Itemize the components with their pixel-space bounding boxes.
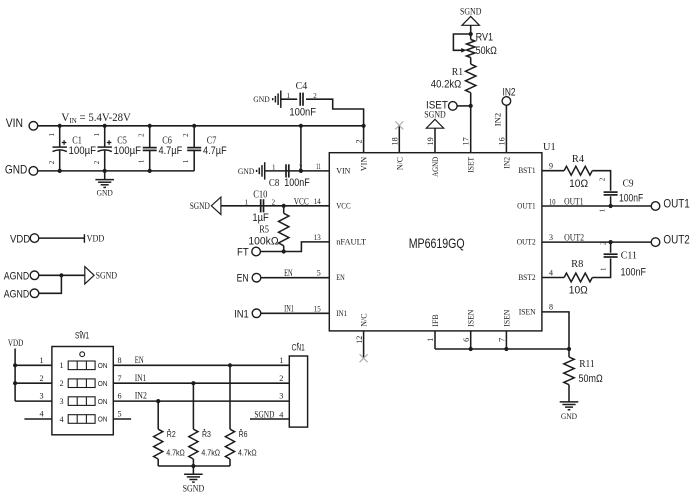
wire SW1 pin4 stub bbox=[24, 418, 52, 420]
terminal AGND (upper) bbox=[30, 271, 39, 280]
svg-text:IN2: IN2 bbox=[503, 86, 516, 98]
capacitor C10 bbox=[261, 199, 264, 212]
svg-text:BST1: BST1 bbox=[518, 165, 536, 175]
capacitor C9 bbox=[604, 192, 618, 195]
svg-text:4.7µF: 4.7µF bbox=[159, 145, 183, 157]
svg-text:GND: GND bbox=[561, 412, 577, 421]
ground GND below C5 bbox=[95, 180, 114, 188]
svg-text:1: 1 bbox=[182, 159, 190, 163]
wire GND stem bbox=[104, 171, 106, 180]
junction C5 bottom bbox=[103, 169, 107, 173]
svg-text:GND: GND bbox=[5, 163, 27, 177]
junction C8/pin11 bbox=[299, 169, 303, 173]
wire R5 bottom lead bbox=[283, 246, 285, 252]
svg-text:5: 5 bbox=[317, 269, 321, 278]
svg-text:10: 10 bbox=[549, 197, 556, 206]
ground GND (rotated) for C4 bbox=[273, 91, 281, 108]
wire pin 2 lead bbox=[363, 126, 365, 153]
capacitor C1 (polarized) bbox=[53, 140, 67, 151]
svg-text:8: 8 bbox=[118, 356, 122, 365]
junction R5/FT bbox=[282, 249, 286, 253]
svg-text:7: 7 bbox=[498, 338, 507, 342]
svg-text:nFAULT: nFAULT bbox=[336, 236, 367, 246]
svg-text:6: 6 bbox=[118, 392, 122, 401]
svg-text:EN: EN bbox=[284, 268, 293, 278]
wire pin 3 OUT2 bbox=[542, 241, 651, 243]
svg-text:C11: C11 bbox=[621, 250, 637, 261]
svg-text:13: 13 bbox=[314, 233, 321, 242]
wire R3 top lead bbox=[192, 383, 194, 429]
svg-text:OUT1: OUT1 bbox=[663, 197, 690, 211]
svg-text:N/C: N/C bbox=[394, 157, 404, 170]
wire FT to nFAULT (pin 13) bbox=[260, 242, 329, 252]
svg-text:N/C: N/C bbox=[359, 313, 369, 326]
junction C6 bottom bbox=[148, 169, 152, 173]
svg-text:2: 2 bbox=[182, 133, 190, 137]
svg-text:2: 2 bbox=[355, 139, 364, 143]
terminal OUT2 bbox=[651, 238, 660, 247]
svg-text:SGND: SGND bbox=[190, 202, 210, 212]
wire C10 row (pin 14 VCC) bbox=[221, 205, 329, 207]
svg-text:4.7kΩ: 4.7kΩ bbox=[166, 448, 185, 458]
wire EN row bbox=[113, 364, 289, 366]
svg-text:OUT2: OUT2 bbox=[517, 237, 536, 247]
wire R2 top lead bbox=[157, 401, 159, 429]
wire SW1 pin5 stub bbox=[113, 418, 131, 420]
svg-text:OUT2: OUT2 bbox=[564, 233, 584, 243]
resistor R4 bbox=[564, 166, 592, 175]
wire pin 4 BST2 to R8 bbox=[542, 277, 564, 279]
wire VDD vertical bbox=[14, 349, 16, 402]
svg-text:1: 1 bbox=[599, 208, 607, 212]
junction VCC/R5 bbox=[282, 204, 286, 208]
svg-text:R5: R5 bbox=[259, 225, 269, 236]
svg-text:100nF: 100nF bbox=[284, 177, 310, 189]
wire pin 9 BST1 to R4 bbox=[542, 170, 564, 172]
junction C11/OUT2 bbox=[609, 240, 613, 244]
svg-text:BST2: BST2 bbox=[518, 272, 536, 282]
svg-text:R8: R8 bbox=[571, 259, 583, 270]
svg-text:ISEN: ISEN bbox=[501, 309, 511, 327]
wire ISEN bus bbox=[435, 348, 569, 350]
svg-text:1: 1 bbox=[272, 164, 276, 172]
svg-text:SW1: SW1 bbox=[75, 331, 89, 341]
junction C9/OUT1 bbox=[609, 204, 613, 208]
svg-text:AGND: AGND bbox=[4, 271, 29, 283]
svg-text:OUT1: OUT1 bbox=[517, 201, 536, 211]
resistor R6 bbox=[225, 429, 234, 459]
wire C4 left lead bbox=[281, 98, 297, 100]
svg-text:VIN: VIN bbox=[359, 156, 369, 171]
svg-text:ISEN: ISEN bbox=[466, 309, 476, 327]
junction C1 top bbox=[58, 124, 62, 128]
wire CN1 pin4 stub bbox=[250, 418, 289, 420]
svg-text:9: 9 bbox=[549, 162, 553, 171]
wire IN2 row bbox=[113, 400, 289, 402]
svg-text:100µF: 100µF bbox=[114, 145, 142, 157]
svg-text:IFB: IFB bbox=[430, 314, 440, 327]
svg-text:R6: R6 bbox=[239, 430, 248, 439]
junction ISET/R1 bbox=[469, 104, 473, 108]
svg-text:GND: GND bbox=[97, 188, 113, 197]
junction pin7/bus bbox=[504, 347, 508, 351]
wire ISET to R1 bbox=[457, 105, 471, 107]
svg-text:3: 3 bbox=[59, 397, 63, 406]
svg-text:4: 4 bbox=[279, 410, 283, 419]
svg-text:C9: C9 bbox=[623, 178, 634, 189]
wire R5 top lead bbox=[283, 206, 285, 214]
capacitor C7 bbox=[187, 148, 201, 151]
svg-text:50kΩ: 50kΩ bbox=[476, 45, 497, 57]
svg-text:2: 2 bbox=[599, 177, 607, 181]
svg-text:100nF: 100nF bbox=[619, 192, 644, 204]
resistor R1 bbox=[466, 64, 476, 93]
wire pin 18 N/C lead bbox=[398, 125, 400, 152]
wire VIN rail bbox=[38, 125, 364, 127]
capacitor C11 bbox=[604, 254, 618, 257]
svg-text:VDD: VDD bbox=[10, 234, 30, 246]
terminal AGND (lower) bbox=[30, 289, 39, 298]
svg-text:100nF: 100nF bbox=[621, 267, 647, 279]
wire R6 bottom lead bbox=[229, 459, 231, 466]
svg-text:EN: EN bbox=[135, 356, 144, 366]
svg-text:GND: GND bbox=[253, 95, 269, 104]
svg-text:4.7µF: 4.7µF bbox=[203, 145, 227, 157]
wire AGND lower loop bbox=[39, 275, 62, 293]
junction VIN/C8 branch bbox=[299, 124, 303, 128]
junction VIN/pin2 bbox=[362, 124, 366, 128]
junction C5 top bbox=[103, 124, 107, 128]
svg-text:MP6619GQ: MP6619GQ bbox=[409, 235, 465, 251]
no-connect X pin 12 bbox=[360, 354, 368, 362]
wire R3 bottom lead bbox=[192, 459, 194, 466]
junction C1 bottom bbox=[58, 169, 62, 173]
svg-text:4: 4 bbox=[59, 415, 63, 424]
svg-text:2: 2 bbox=[138, 133, 146, 137]
wire SGND stem bbox=[470, 25, 472, 34]
svg-text:RV1: RV1 bbox=[476, 32, 493, 44]
capacitor C6 bbox=[143, 148, 157, 151]
svg-text:2: 2 bbox=[48, 160, 56, 164]
wire C4 to VIN node bbox=[306, 99, 364, 126]
resistor R5 bbox=[279, 213, 289, 245]
wire SW1 pin1 stub bbox=[15, 364, 52, 366]
svg-text:C10: C10 bbox=[253, 190, 267, 201]
power bar VDD bbox=[83, 234, 85, 243]
svg-text:3: 3 bbox=[549, 233, 553, 242]
junction IN2/R2 bbox=[156, 399, 160, 403]
svg-text:3: 3 bbox=[39, 392, 43, 401]
svg-text:R2: R2 bbox=[167, 430, 176, 439]
svg-text:4.7kΩ: 4.7kΩ bbox=[238, 448, 257, 458]
svg-text:IN1: IN1 bbox=[284, 304, 294, 314]
wire RV1 wiper loop bbox=[453, 34, 470, 50]
svg-text:2: 2 bbox=[272, 199, 276, 207]
RV1 wiper arrowhead bbox=[461, 48, 466, 53]
svg-text:1: 1 bbox=[138, 159, 146, 163]
svg-text:19: 19 bbox=[426, 137, 435, 145]
svg-text:VCC: VCC bbox=[294, 196, 309, 206]
svg-text:1: 1 bbox=[279, 356, 283, 365]
svg-text:1: 1 bbox=[39, 356, 43, 365]
wire pin 10 OUT1 bbox=[542, 205, 651, 207]
junction EN/R6 bbox=[228, 363, 232, 367]
wire IN1 to pin 15 bbox=[261, 312, 330, 314]
wire SW1 pin3 stub bbox=[15, 400, 52, 402]
svg-text:100kΩ: 100kΩ bbox=[248, 236, 278, 248]
svg-text:17: 17 bbox=[462, 137, 471, 145]
wire pin 8 ISEN bbox=[542, 312, 569, 349]
junction C6 top bbox=[148, 124, 152, 128]
svg-text:R11: R11 bbox=[579, 359, 595, 370]
svg-text:SGND: SGND bbox=[424, 111, 446, 121]
wire leads of C6 bbox=[149, 126, 151, 147]
svg-text:16: 16 bbox=[497, 137, 506, 145]
junction IN1/R3 bbox=[191, 381, 195, 385]
resistor R3 bbox=[189, 429, 198, 459]
SGND flag at AGND bbox=[85, 267, 94, 284]
terminal OUT1 bbox=[651, 202, 660, 211]
potentiometer RV1 body bbox=[467, 40, 475, 58]
wire C9 bottom lead bbox=[610, 196, 612, 206]
svg-text:1: 1 bbox=[93, 132, 101, 136]
wire R11 top lead bbox=[568, 349, 570, 357]
capacitor C5 (polarized) bbox=[98, 140, 112, 151]
svg-text:VDD: VDD bbox=[87, 235, 105, 245]
wire C8 row (pin 11 VIN) bbox=[265, 170, 330, 172]
junction VDD/pin1 bbox=[13, 363, 17, 367]
svg-text:VIN: VIN bbox=[6, 116, 23, 130]
ground GND below R11 bbox=[560, 402, 579, 410]
svg-text:14: 14 bbox=[314, 197, 321, 206]
resistor R2 bbox=[154, 429, 163, 459]
junction RV1 top bbox=[469, 32, 473, 36]
svg-text:R1: R1 bbox=[452, 67, 463, 78]
op-amp/driver IC U1 MP6619GQ body bbox=[329, 153, 542, 331]
wire pin 12 N/C lead bbox=[363, 331, 365, 358]
svg-text:IN1: IN1 bbox=[135, 374, 147, 384]
svg-text:4.7kΩ: 4.7kΩ bbox=[201, 448, 220, 458]
wire R4 to C9 bbox=[592, 171, 610, 191]
junction VDD/pin2 bbox=[13, 381, 17, 385]
svg-text:OUT1: OUT1 bbox=[564, 197, 583, 207]
svg-text:SGND: SGND bbox=[460, 8, 482, 18]
svg-text:AGND: AGND bbox=[430, 157, 440, 177]
svg-text:18: 18 bbox=[390, 137, 399, 145]
svg-text:C4: C4 bbox=[296, 81, 308, 92]
wire pin 1 IFB lead bbox=[434, 331, 436, 349]
svg-text:2: 2 bbox=[599, 241, 607, 245]
wire pin 6 ISEN lead bbox=[470, 331, 472, 349]
wire pin 7 ISEN lead bbox=[505, 331, 507, 349]
svg-text:U1: U1 bbox=[543, 142, 556, 153]
connector CN1 body bbox=[289, 356, 307, 427]
svg-text:2: 2 bbox=[279, 374, 283, 383]
svg-text:1: 1 bbox=[59, 361, 63, 370]
svg-text:6: 6 bbox=[462, 338, 471, 342]
svg-text:EN: EN bbox=[237, 273, 249, 285]
svg-text:7: 7 bbox=[118, 374, 122, 383]
svg-text:EN: EN bbox=[336, 272, 345, 282]
wire R6 top lead bbox=[229, 365, 231, 429]
capacitor C8 bbox=[286, 164, 289, 177]
svg-text:2: 2 bbox=[59, 379, 63, 388]
wire IN1 row bbox=[113, 382, 289, 384]
terminal IN2 bbox=[502, 97, 511, 106]
wire R1 bottom lead bbox=[470, 93, 472, 106]
resistor R11 bbox=[564, 357, 574, 385]
terminal IN1 bbox=[252, 309, 261, 318]
svg-text:12: 12 bbox=[355, 336, 364, 344]
wire pin 17 lead bbox=[470, 106, 472, 153]
ground SGND below resistors bbox=[184, 474, 203, 482]
wire SW1 pin2 stub bbox=[15, 382, 52, 384]
wire R2 bottom lead bbox=[157, 459, 159, 466]
wire RV1 bottom lead bbox=[470, 58, 472, 65]
svg-text:10Ω: 10Ω bbox=[569, 178, 588, 190]
terminal VDD bbox=[30, 234, 39, 243]
svg-text:4: 4 bbox=[549, 269, 553, 278]
SGND flag above RV1 bbox=[462, 16, 479, 25]
svg-text:8: 8 bbox=[549, 302, 553, 311]
wire VDD to power bar bbox=[39, 237, 85, 239]
svg-text:VIN: VIN bbox=[336, 165, 351, 175]
svg-text:ISET: ISET bbox=[426, 99, 448, 111]
wire VIN rail to C8 bbox=[300, 126, 302, 171]
svg-text:100nF: 100nF bbox=[289, 106, 316, 118]
svg-text:10Ω: 10Ω bbox=[569, 284, 588, 296]
svg-text:ON: ON bbox=[98, 415, 108, 424]
svg-text:FT: FT bbox=[237, 247, 249, 259]
svg-text:100µF: 100µF bbox=[69, 145, 97, 157]
svg-text:40.2kΩ: 40.2kΩ bbox=[431, 78, 462, 90]
svg-text:IN2: IN2 bbox=[501, 157, 511, 169]
resistor R8 bbox=[564, 273, 592, 282]
svg-text:1: 1 bbox=[245, 199, 249, 207]
wire pin 16 lead bbox=[505, 105, 507, 152]
junction bus/SGND bbox=[191, 464, 195, 468]
svg-text:1: 1 bbox=[426, 338, 435, 342]
wire leads of C5 bbox=[104, 126, 106, 147]
svg-text:OUT2: OUT2 bbox=[663, 233, 690, 247]
svg-text:ON: ON bbox=[98, 397, 108, 406]
svg-text:ISET: ISET bbox=[466, 156, 476, 172]
svg-text:R3: R3 bbox=[202, 430, 211, 439]
capacitor C4 bbox=[300, 93, 303, 106]
wire RV1 top lead bbox=[470, 34, 472, 40]
terminal VIN bbox=[29, 122, 38, 131]
SGND flag at AGND pin 19 bbox=[426, 119, 443, 128]
svg-text:SGND: SGND bbox=[183, 484, 205, 494]
svg-text:C8: C8 bbox=[269, 178, 279, 189]
svg-text:ISEN: ISEN bbox=[519, 306, 537, 316]
svg-text:15: 15 bbox=[314, 304, 321, 313]
svg-text:IN2: IN2 bbox=[135, 392, 147, 402]
wire leads of C7 bbox=[193, 126, 195, 147]
svg-text:1: 1 bbox=[599, 267, 607, 271]
svg-text:AGND: AGND bbox=[4, 289, 29, 301]
wire pin 19 lead bbox=[434, 128, 436, 153]
wire SGND stem bbox=[192, 466, 194, 474]
wire R11 bottom lead bbox=[568, 385, 570, 402]
svg-text:IN2: IN2 bbox=[493, 113, 503, 126]
junction pin8/bus bbox=[567, 347, 571, 351]
wire C11 bottom to R8 bbox=[592, 258, 610, 277]
svg-text:IN1: IN1 bbox=[234, 308, 249, 320]
terminal GND bbox=[29, 167, 38, 176]
svg-text:2: 2 bbox=[93, 160, 101, 164]
svg-text:1µF: 1µF bbox=[252, 212, 269, 224]
wire AGND upper to flag bbox=[39, 274, 85, 276]
wire pulldown bus bbox=[158, 465, 230, 467]
no-connect X pin 18 bbox=[395, 121, 403, 129]
wire EN to pin 5 bbox=[261, 277, 330, 279]
wire GND rail bbox=[38, 170, 195, 172]
wire C11 top lead bbox=[610, 242, 612, 253]
svg-text:4: 4 bbox=[39, 410, 43, 419]
junction C7 top bbox=[192, 124, 196, 128]
switch SW1 body bbox=[52, 347, 113, 435]
svg-text:VDD: VDD bbox=[8, 339, 23, 349]
svg-text:50mΩ: 50mΩ bbox=[579, 373, 603, 385]
svg-text:3: 3 bbox=[279, 392, 283, 401]
terminal EN bbox=[252, 273, 261, 282]
svg-text:2: 2 bbox=[39, 374, 43, 383]
SGND flag at C10 bbox=[211, 197, 221, 214]
svg-text:R4: R4 bbox=[572, 154, 584, 165]
svg-text:1: 1 bbox=[48, 132, 56, 136]
ground GND (rotated) for C8 bbox=[257, 162, 265, 179]
svg-text:ON: ON bbox=[98, 361, 108, 370]
svg-text:SGND: SGND bbox=[96, 272, 118, 282]
svg-text:ON: ON bbox=[98, 379, 108, 388]
svg-text:1: 1 bbox=[287, 92, 291, 100]
svg-text:5: 5 bbox=[118, 410, 122, 419]
terminal ISET bbox=[449, 102, 458, 111]
svg-text:VCC: VCC bbox=[336, 200, 351, 210]
SW1 orientation circle bbox=[80, 352, 85, 357]
svg-text:11: 11 bbox=[316, 162, 321, 171]
svg-text:GND: GND bbox=[238, 167, 254, 176]
svg-text:SGND: SGND bbox=[254, 410, 274, 420]
junction pin6/bus bbox=[469, 347, 473, 351]
junction AGND bbox=[59, 273, 63, 277]
terminal FT bbox=[252, 247, 261, 256]
svg-text:IN1: IN1 bbox=[336, 308, 347, 318]
wire leads of C1 bbox=[59, 126, 61, 147]
